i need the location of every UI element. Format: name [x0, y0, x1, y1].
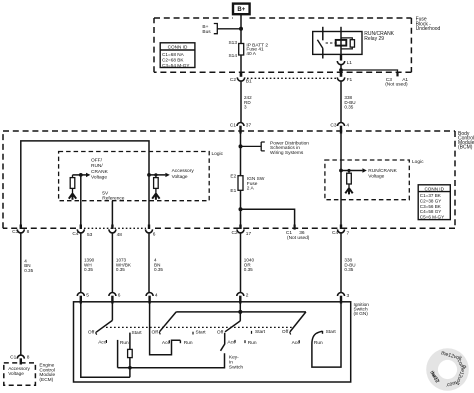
run/crank voltage label — [368, 168, 397, 180]
callout label power distribution — [270, 141, 309, 156]
svg-text:C1: C1 — [230, 123, 236, 129]
wire 1040 OR C2-17 to ign 2 — [240, 233, 242, 293]
svg-text:E1: E1 — [230, 188, 236, 194]
svg-text:Switch: Switch — [229, 364, 243, 370]
svg-text:Start: Start — [132, 330, 143, 336]
wire pin 3 to switch4 run and start — [312, 304, 341, 368]
svg-text:Accessory: Accessory — [172, 168, 195, 174]
node accessory tap — [147, 173, 151, 177]
svg-text:Start: Start — [326, 329, 337, 335]
svg-text:Start: Start — [255, 329, 266, 335]
switch3 common wire from pin 2 — [239, 304, 241, 321]
wire run to start joint — [118, 367, 130, 369]
accessory voltage label ECM — [8, 366, 30, 376]
CONN ID table BCM — [418, 185, 450, 220]
resistor run/crank — [348, 171, 350, 190]
svg-text:Run: Run — [248, 340, 257, 346]
svg-text:C2: C2 — [230, 77, 236, 83]
svg-text:C3: C3 — [12, 229, 18, 235]
svg-text:C3=56 BK: C3=56 BK — [420, 204, 442, 209]
switch4 blade — [290, 312, 306, 332]
svg-text:8: 8 — [27, 355, 30, 361]
node off/run/crank tap — [79, 173, 83, 177]
switch2 off contact tick — [159, 332, 160, 335]
connector ign pin 2 — [237, 293, 244, 296]
svg-text:Reference: Reference — [102, 195, 124, 201]
switch2 run contact tick — [179, 340, 181, 343]
switch3 acc contact — [234, 340, 236, 343]
node run/crank resistor tap — [347, 169, 350, 172]
wire branch to A1 stub — [341, 70, 398, 72]
node B+ bus junction — [239, 27, 243, 31]
svg-text:0.35: 0.35 — [84, 267, 93, 272]
BCM connector C4 dotted row segment — [84, 227, 146, 229]
node feed rail junction — [238, 310, 242, 314]
switch1 off contact tick — [96, 332, 97, 334]
5V reference label — [102, 191, 124, 202]
svg-text:C4: C4 — [72, 231, 78, 237]
svg-text:Bus: Bus — [202, 29, 211, 35]
BCM dashed enclosure — [3, 131, 455, 228]
connector L1 — [340, 54, 342, 60]
wire accessory net C3-8 up and across — [21, 141, 149, 225]
svg-text:Off: Off — [88, 329, 95, 335]
svg-text:Off: Off — [217, 329, 224, 335]
svg-text:Acc: Acc — [292, 340, 301, 346]
svg-text:(Not used): (Not used) — [385, 82, 408, 88]
svg-text:E2: E2 — [230, 174, 236, 180]
connector C4 pin 53 — [80, 225, 82, 230]
wire 5V reference to pin 48 — [111, 201, 113, 225]
accessory sense arrow wire — [149, 174, 165, 176]
svg-text:Voltage: Voltage — [368, 174, 384, 180]
svg-text:B+: B+ — [237, 7, 245, 13]
svg-text:Wiring Systems: Wiring Systems — [270, 150, 304, 156]
svg-text:(BCM): (BCM) — [458, 145, 473, 151]
svg-text:(ECM): (ECM) — [39, 377, 53, 383]
switch1 acc contact — [105, 340, 107, 343]
svg-text:0.35: 0.35 — [244, 267, 253, 272]
connector ign pin 3 — [338, 293, 345, 296]
relay coil wire — [340, 32, 342, 61]
B+ bus label — [202, 24, 211, 35]
fuse IP BATT 2 Fuse 41 40A — [239, 44, 244, 56]
switch3 run contact — [244, 340, 246, 343]
switch2 and switch4 feed rail — [176, 311, 306, 313]
svg-text:Run: Run — [184, 340, 193, 346]
svg-text:B1: B1 — [246, 79, 252, 85]
pin C1-36 stub not used — [294, 225, 296, 230]
relay RUN/CRANK Relay 29 box — [313, 32, 362, 55]
watermark the12volt.com — [426, 348, 469, 391]
wire pin 4 to switch2 run contact — [150, 304, 181, 355]
svg-text:Off: Off — [282, 329, 289, 335]
svg-text:Voltage: Voltage — [91, 175, 107, 181]
B+ bus bracket — [214, 24, 241, 34]
switch2 start contact — [192, 332, 194, 335]
svg-text:F1: F1 — [347, 77, 353, 83]
connector C2/B1 — [240, 72, 243, 77]
svg-text:C4=58 GY: C4=58 GY — [420, 209, 442, 214]
key-in switch label — [229, 354, 243, 370]
svg-text:S13: S13 — [228, 40, 237, 46]
svg-text:RUN/CRANK: RUN/CRANK — [368, 168, 397, 174]
svg-text:4: 4 — [346, 123, 349, 129]
svg-text:7: 7 — [347, 231, 350, 237]
ground accessory — [152, 194, 159, 200]
ECM label — [39, 363, 55, 383]
relay label — [364, 31, 394, 42]
svg-text:0.35: 0.35 — [344, 104, 353, 109]
ignition switch label — [354, 302, 370, 317]
connector ign pin 5 — [77, 293, 84, 296]
svg-text:C2=38 GY: C2=38 GY — [420, 198, 442, 203]
switch1 blade — [96, 320, 112, 332]
svg-text:Logic: Logic — [412, 159, 424, 165]
svg-text:Logic: Logic — [212, 151, 224, 157]
resistor ignition start — [128, 349, 133, 357]
CONN ID table fuse block — [160, 43, 195, 68]
wire 1073 WH/BK pin48 to ign 6 — [111, 233, 113, 293]
svg-text:C4: C4 — [332, 230, 338, 236]
wire stub into relay coil — [340, 27, 342, 32]
svg-text:Underhood: Underhood — [416, 26, 441, 32]
svg-text:0.35: 0.35 — [24, 268, 33, 273]
wire label 242 RD 3 — [244, 95, 252, 109]
svg-text:C2=68 BK: C2=68 BK — [162, 58, 184, 63]
svg-text:Relay 29: Relay 29 — [364, 36, 384, 42]
switch1 common wire from pin 6 — [111, 304, 113, 321]
BCM label — [458, 131, 474, 151]
wire 4 BN pin6 to ign 4 — [148, 233, 150, 293]
wire C1-37 main vertical in BCM — [240, 134, 242, 225]
connector pin 6 — [148, 225, 150, 230]
svg-text:RUN/: RUN/ — [91, 163, 103, 169]
svg-text:C3=54 M-GY: C3=54 M-GY — [162, 63, 190, 68]
key-in switch blade — [221, 333, 225, 351]
svg-text:0.35: 0.35 — [154, 267, 163, 272]
switch3 start contact — [251, 331, 253, 334]
relay linkage dashed — [326, 42, 338, 44]
connector ign pin 6 — [109, 293, 116, 296]
svg-text:Voltage: Voltage — [8, 371, 24, 376]
connector F1 — [340, 72, 343, 77]
connector C4 pin 7 — [340, 225, 342, 230]
svg-text:17: 17 — [246, 231, 252, 237]
right logic dashed box — [325, 160, 409, 200]
svg-text:C5=6 M-GY: C5=6 M-GY — [420, 215, 444, 220]
connector C1 pin 37 — [237, 123, 244, 127]
dotted connector row line C2 to F1 — [247, 77, 337, 79]
svg-text:5: 5 — [86, 292, 89, 298]
switch2 blade — [160, 312, 177, 332]
switch1 start contact wire with resistor — [129, 333, 131, 378]
relay coil — [336, 40, 347, 46]
svg-text:6: 6 — [153, 232, 156, 238]
svg-text:Acc: Acc — [227, 339, 236, 345]
svg-text:OFF/: OFF/ — [91, 158, 103, 164]
fuse IGN SW Fuse 2A — [238, 176, 243, 191]
svg-text:2: 2 — [246, 292, 249, 298]
svg-text:48: 48 — [117, 232, 123, 238]
connector C3 pin 4 — [338, 123, 345, 127]
svg-text:Acc: Acc — [98, 340, 107, 346]
run/crank sense arrow wire — [341, 170, 362, 172]
node branch to A1 — [339, 68, 343, 72]
svg-text:Acc: Acc — [162, 340, 171, 346]
wire stub into relay switch — [322, 27, 324, 41]
svg-text:C1=68 NA: C1=68 NA — [162, 52, 185, 57]
fuse block underhood dashed enclosure — [154, 18, 411, 72]
fuse block label — [416, 17, 441, 33]
ignition switch box — [74, 302, 351, 382]
svg-text:2 A: 2 A — [247, 185, 255, 191]
svg-text:3: 3 — [244, 104, 247, 109]
svg-text:CONN ID: CONN ID — [168, 45, 188, 50]
accessory voltage label — [172, 168, 195, 180]
svg-text:0.35: 0.35 — [344, 267, 353, 272]
svg-text:C2: C2 — [232, 230, 238, 236]
svg-text:Off: Off — [151, 329, 158, 335]
svg-text:53: 53 — [87, 232, 93, 238]
switch4 off contact tick — [290, 332, 291, 335]
svg-text:8: 8 — [27, 229, 30, 235]
ECM dashed box — [4, 363, 36, 385]
svg-text:3: 3 — [347, 293, 350, 299]
resistor accessory — [155, 175, 157, 195]
svg-text:S14: S14 — [228, 53, 237, 59]
pin A1 stub (not used) — [396, 72, 398, 76]
left logic dashed box — [59, 152, 210, 201]
svg-text:C1=37 BK: C1=37 BK — [420, 193, 442, 198]
resistor in relay — [350, 40, 354, 47]
wire pin 5 feed — [81, 304, 130, 378]
switch1 run contact wire — [117, 340, 119, 368]
relay coil resistor loop — [341, 38, 352, 49]
node run/crank tap — [339, 169, 343, 173]
connector C2 pin 17 — [239, 225, 241, 230]
relay switch blade — [317, 40, 322, 48]
svg-text:Run: Run — [314, 340, 323, 346]
svg-text:(8 GN): (8 GN) — [354, 311, 369, 317]
wire branch to C1-36 — [241, 209, 295, 224]
svg-text:CONN ID: CONN ID — [424, 186, 444, 191]
wire L1 to F1 — [340, 65, 342, 73]
wire down to C4-53 — [80, 175, 82, 225]
node accessory resistor tap — [154, 173, 157, 176]
ground run/crank — [345, 188, 352, 194]
mechanical linkage dotted line — [106, 326, 294, 328]
wire 338 D-BU below F1 — [340, 81, 342, 123]
wire 4 BN C3-8 to ECM — [20, 233, 22, 355]
svg-text:6: 6 — [118, 292, 121, 298]
wire to key-in switch — [130, 353, 225, 368]
wire 1390 WH C4-53 to ign 5 — [80, 233, 82, 293]
svg-text:4: 4 — [155, 292, 158, 298]
wire C3-4 main vertical in BCM — [340, 134, 342, 225]
ground off/run/crank — [69, 194, 76, 200]
wire 242 RD below C2 — [240, 81, 242, 123]
wire B+ box to fuse — [240, 14, 242, 43]
svg-text:Run: Run — [120, 340, 129, 346]
switch4 start contact tick — [322, 331, 324, 334]
connector ign pin 4 — [146, 293, 153, 296]
off/run/crank sense: arrow wire — [73, 174, 87, 176]
switch2 acc contact — [168, 340, 170, 343]
relay switch lower contact wire — [322, 48, 324, 58]
node run start join — [128, 366, 132, 370]
switch3 blade — [225, 321, 240, 332]
svg-text:C1: C1 — [10, 355, 16, 361]
svg-text:Voltage: Voltage — [172, 174, 188, 180]
svg-text:37: 37 — [246, 123, 252, 129]
svg-text:L1: L1 — [347, 60, 353, 66]
svg-text:Start: Start — [196, 330, 207, 336]
connector pin 48 — [111, 225, 113, 230]
svg-text:C3: C3 — [330, 123, 336, 129]
callout wire and bracket — [241, 142, 265, 151]
node callout junction — [239, 144, 243, 148]
wire fuse to connector C2 — [240, 55, 242, 72]
wire label 338 D-BU 0.35 — [344, 95, 355, 109]
svg-text:0.35: 0.35 — [116, 267, 125, 272]
svg-text:CRANK: CRANK — [91, 169, 109, 175]
B+ terminal box — [233, 4, 250, 15]
connector C3 pin 8 — [20, 225, 22, 230]
node fuse output branch — [239, 207, 243, 211]
switch4 acc contact — [298, 340, 300, 343]
off/run/crank label — [91, 158, 109, 181]
resistor off/run/crank — [72, 175, 74, 195]
svg-text:(Not used): (Not used) — [287, 235, 310, 241]
connector ECM C1 pin 8 — [17, 355, 24, 359]
wire 338 D-BU C4-7 to ign 3 — [340, 233, 342, 293]
svg-text:40 A: 40 A — [246, 51, 256, 57]
